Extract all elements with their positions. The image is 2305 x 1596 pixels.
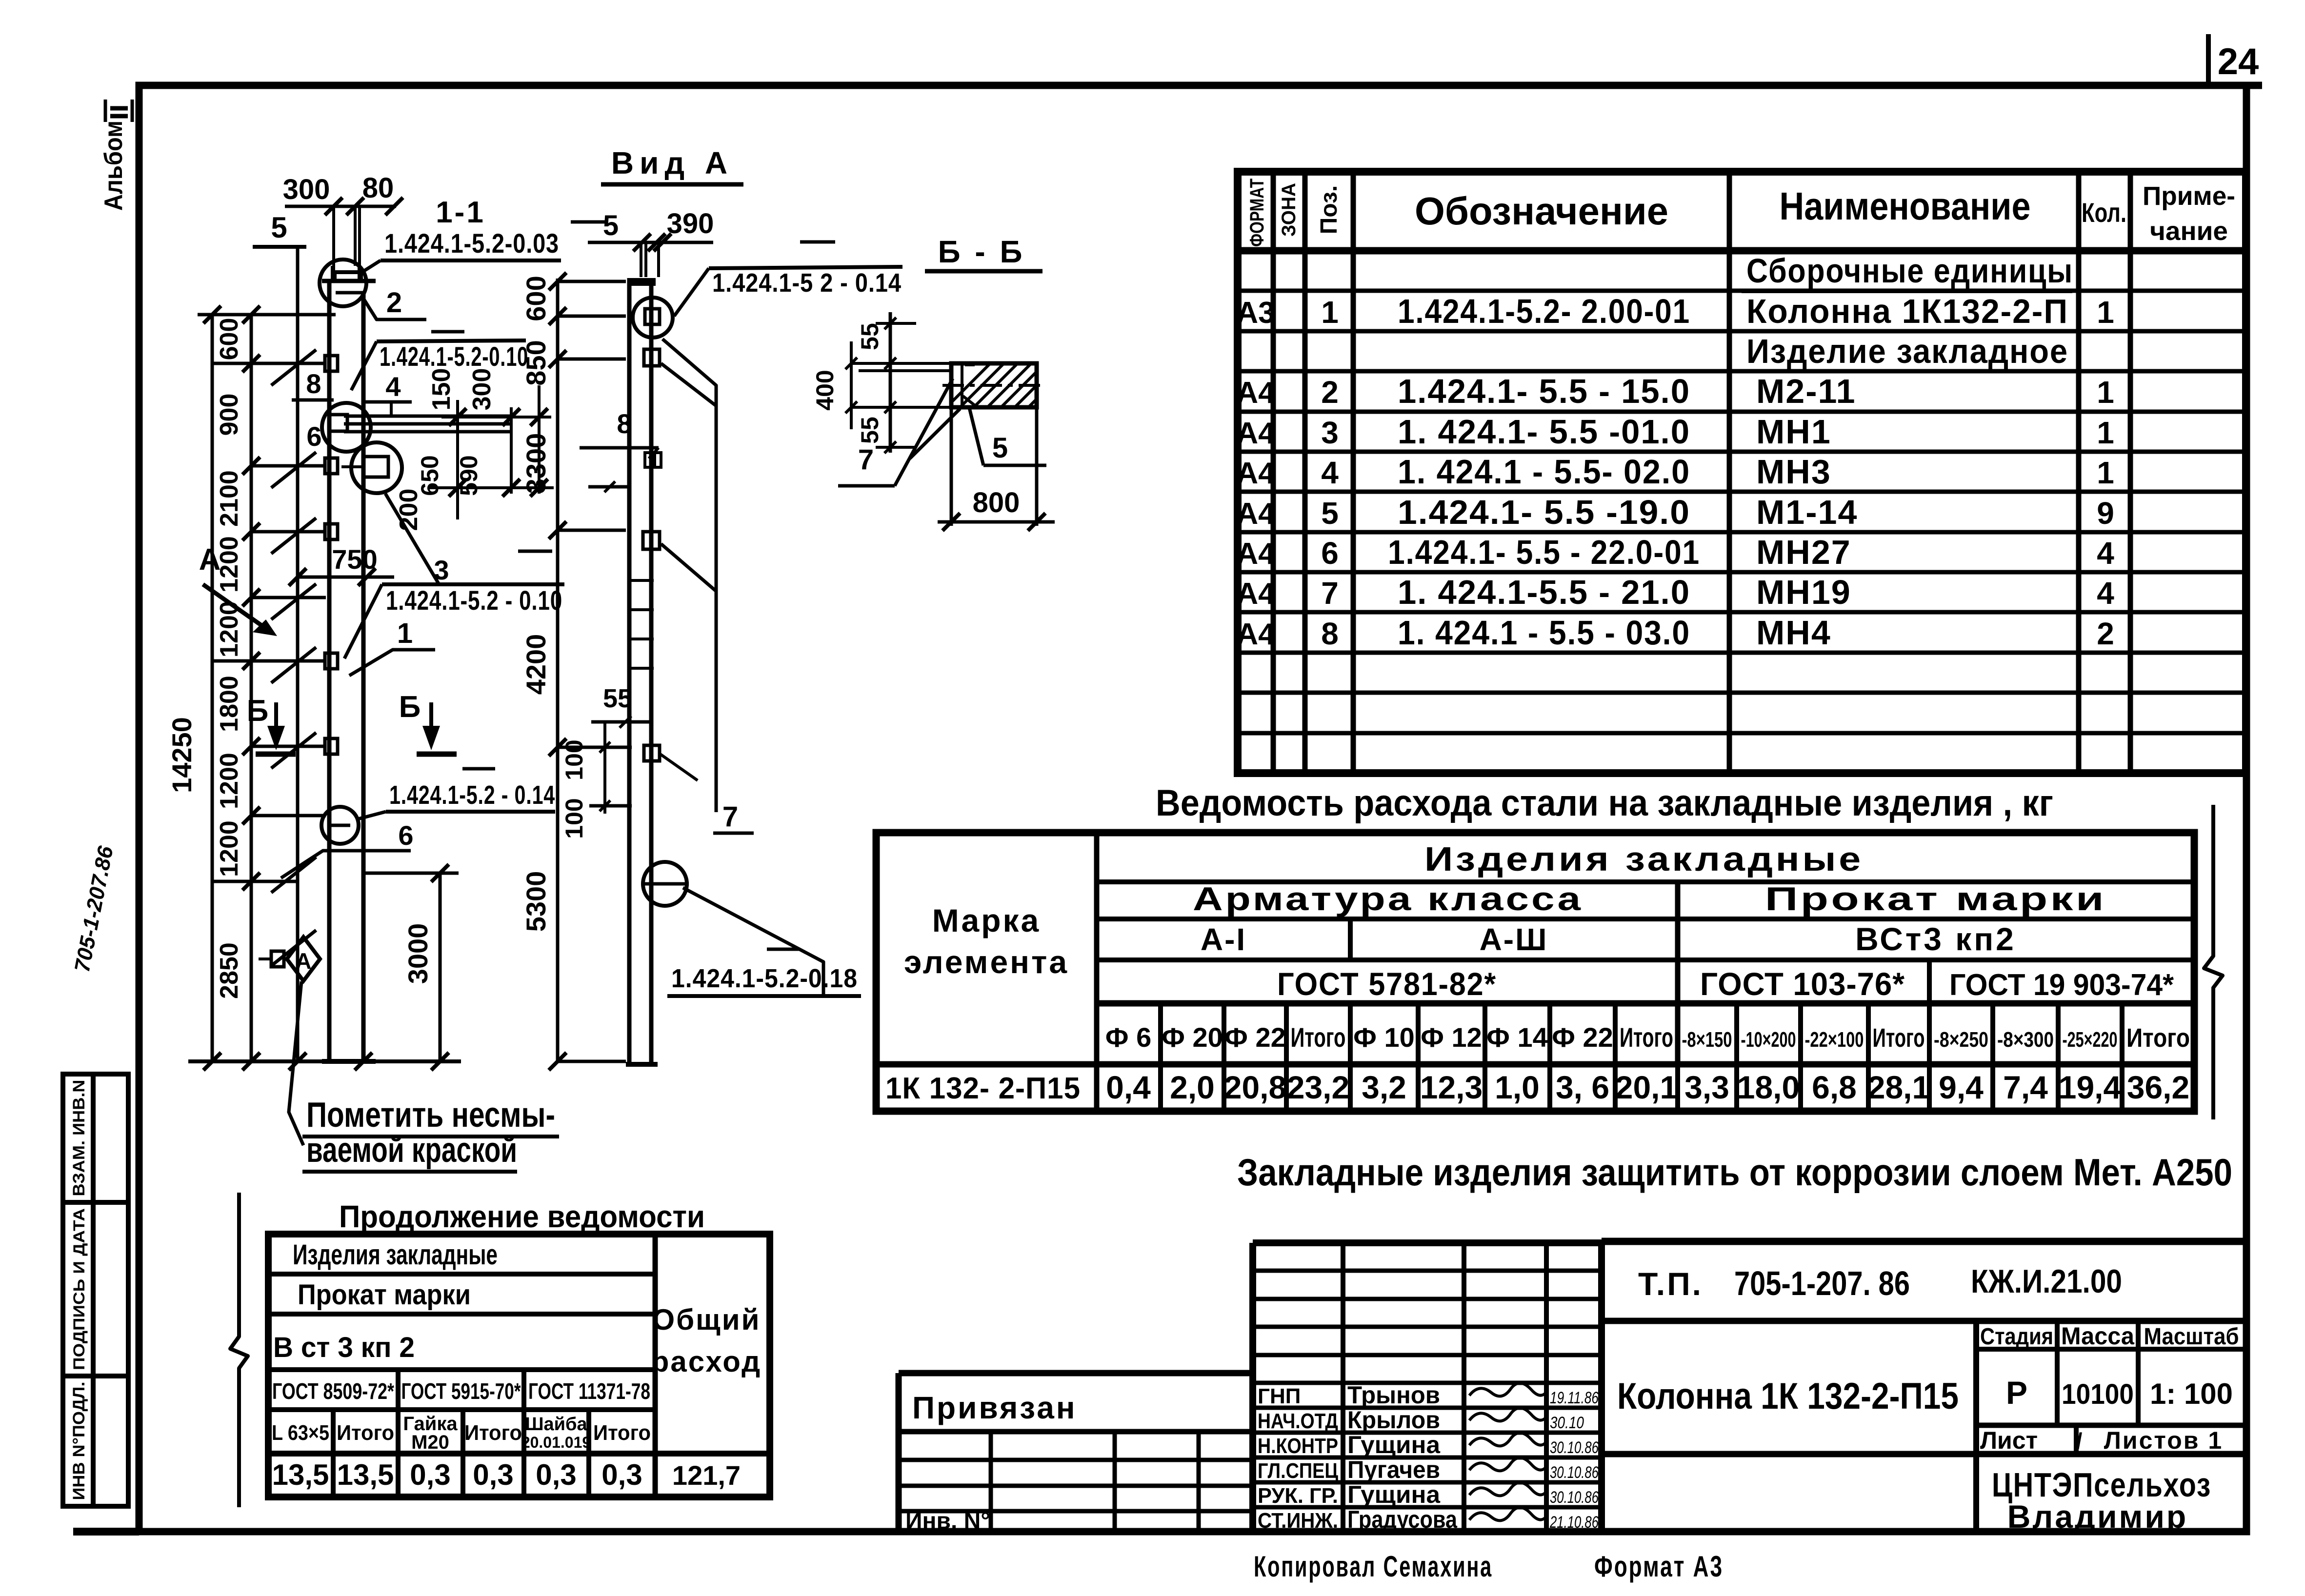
svg-text:Гущина: Гущина [1347,1431,1441,1458]
svg-text:Привязан: Привязан [912,1390,1077,1425]
svg-text:Пугачев: Пугачев [1347,1456,1440,1483]
svg-text:Изделия закладные: Изделия закладные [1424,840,1864,878]
svg-text:Ф 14: Ф 14 [1486,1022,1548,1053]
svg-text:Б: Б [247,694,269,728]
svg-text:4: 4 [2097,536,2114,571]
svg-text:19,4: 19,4 [2059,1069,2122,1105]
svg-text:А4: А4 [1236,417,1275,450]
svg-text:6: 6 [398,820,413,851]
svg-text:30.10.86: 30.10.86 [1550,1488,1599,1507]
svg-text:28,1: 28,1 [1867,1069,1930,1105]
svg-text:Ф 22: Ф 22 [1224,1022,1286,1053]
svg-text:1.424.1- 5.5 - 22.0-01: 1.424.1- 5.5 - 22.0-01 [1388,533,1700,571]
svg-text:400: 400 [811,370,839,410]
svg-text:Ф 20: Ф 20 [1162,1022,1223,1053]
svg-text:А3: А3 [1236,296,1275,330]
svg-text:МН19: МН19 [1756,573,1851,611]
svg-text:М1-14: М1-14 [1756,493,1858,531]
svg-text:Стадия: Стадия [1980,1324,2053,1350]
svg-text:Вид А: Вид А [611,145,733,180]
svg-text:6,8: 6,8 [1812,1069,1857,1105]
svg-text:24: 24 [2218,41,2259,82]
svg-text:23,2: 23,2 [1287,1069,1349,1105]
svg-text:1,0: 1,0 [1495,1069,1540,1105]
svg-text:390: 390 [667,208,714,239]
svg-text:9: 9 [2097,496,2114,531]
svg-text:8: 8 [1321,616,1339,651]
svg-text:А4: А4 [1236,497,1275,531]
svg-text:ГОСТ 103-76*: ГОСТ 103-76* [1700,966,1905,1002]
svg-text:ГОСТ 11371-78: ГОСТ 11371-78 [528,1378,650,1404]
svg-text:2: 2 [386,287,402,319]
svg-text:Итого: Итого [464,1421,522,1445]
svg-text:элемента: элемента [904,944,1069,980]
svg-text:1. 424.1- 5.5 -01.0: 1. 424.1- 5.5 -01.0 [1398,413,1690,451]
svg-text:Лист: Лист [1980,1427,2038,1454]
svg-text:Приме-: Приме- [2143,181,2235,211]
svg-text:20,8: 20,8 [1224,1069,1286,1105]
svg-text:2850: 2850 [215,942,243,999]
svg-text:55: 55 [603,684,632,713]
svg-text:1.424.1-5.2-0.18: 1.424.1-5.2-0.18 [671,964,858,993]
svg-text:80: 80 [362,172,394,204]
svg-text:-22×100: -22×100 [1805,1028,1864,1052]
svg-text:121,7: 121,7 [672,1460,741,1491]
svg-text:4: 4 [385,371,401,402]
svg-text:7: 7 [858,444,874,476]
svg-text:4: 4 [1321,455,1339,490]
svg-text:2100: 2100 [215,470,243,527]
svg-text:Н.КОНТР: Н.КОНТР [1258,1434,1338,1458]
svg-text:Пометить несмы-: Пометить несмы- [306,1096,555,1135]
svg-text:ПОДПИСЬ И ДАТА: ПОДПИСЬ И ДАТА [70,1208,88,1370]
svg-text:Гущина: Гущина [1347,1481,1441,1508]
svg-text:Владимир: Владимир [2007,1498,2188,1535]
svg-text:3, 6: 3, 6 [1556,1069,1609,1105]
svg-text:55: 55 [856,323,883,350]
svg-text:L 63×5: L 63×5 [272,1421,329,1445]
svg-text:750: 750 [332,544,377,575]
svg-text:0,4: 0,4 [1106,1069,1151,1105]
svg-text:800: 800 [973,487,1020,519]
svg-text:2: 2 [1321,375,1339,410]
svg-text:Итого: Итого [1620,1022,1673,1053]
svg-text:3: 3 [1321,415,1339,450]
svg-text:8: 8 [306,368,321,399]
svg-text:30.10: 30.10 [1550,1414,1584,1432]
svg-text:705-1-207. 86: 705-1-207. 86 [1734,1264,1910,1302]
svg-text:1: 1 [397,618,413,649]
svg-text:Ф 12: Ф 12 [1421,1022,1482,1053]
svg-text:0,3: 0,3 [601,1458,642,1491]
svg-text:7: 7 [1321,576,1339,611]
svg-text:6: 6 [306,421,321,452]
svg-text:300: 300 [283,174,330,205]
svg-text:Изделия закладные: Изделия закладные [293,1239,498,1271]
svg-text:А: А [199,543,221,577]
svg-text:Листов 1: Листов 1 [2104,1427,2223,1454]
svg-text:Кол.: Кол. [2082,197,2126,228]
svg-text:-8×250: -8×250 [1934,1028,1988,1052]
svg-text:Масштаб: Масштаб [2144,1324,2239,1350]
svg-text:ЗОНА: ЗОНА [1278,183,1300,237]
svg-text:А4: А4 [1236,537,1275,571]
svg-text:А4: А4 [1236,618,1275,651]
svg-text:Поз.: Поз. [1316,185,1342,234]
svg-text:1.424.1-5.2-0.03: 1.424.1-5.2-0.03 [384,228,559,259]
svg-text:18,0: 18,0 [1737,1069,1800,1105]
svg-text:1: 100: 1: 100 [2150,1377,2233,1410]
svg-text:А4: А4 [1236,376,1275,410]
svg-text:0,3: 0,3 [410,1458,450,1491]
svg-text:СТ.ИНЖ.: СТ.ИНЖ. [1258,1509,1338,1533]
svg-text:КЖ.И.21.00: КЖ.И.21.00 [1971,1263,2122,1300]
svg-text:1.424.1-5.2-0.10: 1.424.1-5.2-0.10 [380,341,528,372]
svg-text:Градусова: Градусова [1347,1506,1458,1533]
svg-text:30.10.86: 30.10.86 [1550,1438,1599,1457]
svg-text:Трынов: Трынов [1347,1381,1440,1409]
svg-text:0,3: 0,3 [473,1458,513,1491]
svg-text:ГНП: ГНП [1258,1384,1301,1408]
svg-text:5300: 5300 [521,871,551,932]
svg-text:ФОРМАТ: ФОРМАТ [1246,179,1268,247]
svg-text:Итого: Итого [1291,1022,1346,1053]
svg-text:3,3: 3,3 [1684,1069,1729,1105]
svg-text:1800: 1800 [215,676,243,732]
svg-text:А4: А4 [1236,577,1275,611]
svg-text:850: 850 [521,340,551,385]
svg-text:20,1: 20,1 [1615,1069,1678,1105]
svg-text:1200: 1200 [215,753,243,809]
svg-text:10100: 10100 [2062,1378,2134,1410]
svg-text:Б - Б: Б - Б [938,234,1025,269]
svg-text:Б: Б [399,690,421,724]
svg-text:7: 7 [722,801,738,833]
svg-text:1К 132- 2-П15: 1К 132- 2-П15 [885,1072,1081,1105]
svg-text:Ф 6: Ф 6 [1105,1022,1152,1053]
svg-text:Формат А3: Формат А3 [1594,1550,1724,1583]
svg-text:ГЛ.СПЕЦ: ГЛ.СПЕЦ [1258,1459,1338,1483]
svg-text:9,4: 9,4 [1939,1069,1984,1105]
svg-text:ГОСТ 5915-70*: ГОСТ 5915-70* [401,1378,521,1404]
svg-text:А-Ш: А-Ш [1480,922,1548,957]
svg-text:-10×200: -10×200 [1741,1028,1796,1052]
svg-text:1. 424.1 - 5.5 - 03.0: 1. 424.1 - 5.5 - 03.0 [1398,614,1690,652]
svg-text:1.424.1-5.2- 2.00-01: 1.424.1-5.2- 2.00-01 [1398,292,1690,330]
svg-text:ГОСТ 19 903-74*: ГОСТ 19 903-74* [1949,968,2174,1002]
svg-text:Обозначение: Обозначение [1415,189,1668,233]
svg-text:300: 300 [468,368,496,411]
svg-text:1. 424.1 - 5.5- 02.0: 1. 424.1 - 5.5- 02.0 [1398,453,1690,491]
svg-text:6: 6 [1321,536,1339,571]
svg-text:36,2: 36,2 [2127,1069,2189,1105]
svg-text:1: 1 [1321,295,1339,330]
svg-text:150: 150 [427,368,456,411]
svg-text:Альбом: Альбом [100,120,128,211]
svg-text:4: 4 [2097,576,2114,611]
svg-text:4200: 4200 [521,634,551,695]
svg-text:расход: расход [651,1345,762,1378]
svg-text:А: А [295,948,311,974]
svg-text:Итого: Итого [1873,1023,1925,1053]
svg-text:2: 2 [2097,616,2114,651]
svg-text:1: 1 [2097,375,2114,410]
svg-text:1200: 1200 [215,820,243,877]
svg-text:600: 600 [521,276,551,321]
svg-text:20.01.019: 20.01.019 [521,1434,591,1451]
svg-text:Арматура класса: Арматура класса [1193,880,1583,918]
svg-text:100: 100 [561,798,588,838]
svg-text:ВСт3 кп2: ВСт3 кп2 [1855,921,2016,957]
svg-text:Инв. N°: Инв. N° [905,1508,990,1534]
svg-text:ГОСТ 8509-72*: ГОСТ 8509-72* [272,1378,394,1404]
svg-text:Колонна 1К132-2-П: Колонна 1К132-2-П [1746,292,2068,330]
svg-text:2,0: 2,0 [1170,1069,1215,1105]
svg-text:21.10.86: 21.10.86 [1549,1513,1599,1532]
svg-text:Шайба: Шайба [525,1414,587,1435]
svg-text:8: 8 [617,408,632,439]
svg-text:ИНВ N°ПОДЛ.: ИНВ N°ПОДЛ. [70,1382,88,1500]
svg-text:590: 590 [455,455,482,496]
svg-text:ваемой краской: ваемой краской [306,1131,517,1170]
svg-text:ГОСТ 5781-82*: ГОСТ 5781-82* [1277,966,1497,1002]
svg-text:МН4: МН4 [1756,614,1831,652]
svg-text:5: 5 [603,210,619,241]
svg-text:МН27: МН27 [1756,533,1851,571]
svg-text:0,3: 0,3 [536,1458,576,1491]
svg-text:12,3: 12,3 [1420,1069,1483,1105]
svg-text:ВЗАМ. ИНВ.N: ВЗАМ. ИНВ.N [70,1080,88,1197]
svg-text:Общий: Общий [652,1303,761,1336]
svg-text:5: 5 [271,211,287,244]
svg-text:55: 55 [856,417,883,444]
svg-text:900: 900 [215,394,243,436]
svg-text:Ф 10: Ф 10 [1353,1022,1415,1053]
svg-text:Копировал Семахина: Копировал Семахина [1254,1550,1493,1583]
svg-text:19.11.86: 19.11.86 [1550,1389,1599,1407]
svg-text:14250: 14250 [166,717,197,793]
svg-text:Колонна 1К 132-2-П15: Колонна 1К 132-2-П15 [1617,1376,1959,1417]
svg-text:1-1: 1-1 [436,196,485,229]
svg-text:Итого: Итого [337,1421,394,1445]
svg-text:13,5: 13,5 [272,1458,329,1491]
svg-text:Изделие закладное: Изделие закладное [1746,332,2068,370]
svg-text:1: 1 [2097,295,2114,330]
svg-text:А4: А4 [1236,457,1275,490]
svg-text:Прокат марки: Прокат марки [1765,880,2106,918]
svg-text:/: / [2076,1428,2083,1454]
svg-text:Ф 22: Ф 22 [1552,1022,1613,1053]
svg-text:Крылов: Крылов [1347,1406,1440,1434]
svg-text:Р: Р [2006,1375,2027,1411]
svg-text:Прокат марки: Прокат марки [298,1279,471,1311]
svg-text:-25×220: -25×220 [2063,1028,2118,1052]
svg-text:Наименование: Наименование [1780,184,2031,228]
svg-text:М2-11: М2-11 [1756,372,1856,410]
svg-text:30.10.86: 30.10.86 [1550,1463,1599,1482]
svg-text:1: 1 [2097,415,2114,450]
svg-text:3300: 3300 [521,433,551,494]
svg-text:1.424.1- 5.5 -19.0: 1.424.1- 5.5 -19.0 [1398,493,1690,531]
svg-text:МН3: МН3 [1756,453,1831,491]
svg-text:Закладные изделия защитить: Закладные изделия защитить от коррозии с… [1237,1151,2232,1194]
svg-text:В ст 3 кп 2: В ст 3 кп 2 [273,1332,415,1363]
svg-text:М20: М20 [411,1432,449,1453]
svg-text:А-I: А-I [1201,922,1246,957]
svg-text:Ведомость расхода стали на з: Ведомость расхода стали на закладные изд… [1156,782,2053,824]
svg-text:13,5: 13,5 [337,1458,394,1491]
svg-text:Т.П.: Т.П. [1638,1266,1703,1302]
svg-text:РУК. ГР.: РУК. ГР. [1258,1484,1338,1508]
svg-text:5: 5 [992,432,1008,464]
svg-text:1. 424.1-5.5 - 21.0: 1. 424.1-5.5 - 21.0 [1398,573,1690,611]
svg-text:600: 600 [215,318,243,360]
svg-text:3,2: 3,2 [1362,1069,1406,1105]
svg-text:чание: чание [2150,217,2228,246]
svg-text:-8×300: -8×300 [1997,1028,2054,1052]
svg-text:1: 1 [2097,455,2114,490]
svg-text:705-1-207.86: 705-1-207.86 [70,844,118,974]
svg-text:Продолжение ведомости: Продолжение ведомости [339,1199,705,1234]
svg-text:Итого: Итого [593,1421,651,1445]
svg-text:3000: 3000 [402,923,433,984]
svg-text:100: 100 [561,739,588,780]
svg-text:5: 5 [1321,496,1339,531]
svg-text:МН1: МН1 [1756,413,1831,451]
svg-text:Сборочные единицы: Сборочные единицы [1746,252,2073,290]
svg-text:1.424.1- 5.5 - 15.0: 1.424.1- 5.5 - 15.0 [1398,372,1690,410]
svg-text:-8×150: -8×150 [1682,1028,1732,1052]
svg-text:Итого: Итого [2126,1023,2190,1053]
svg-text:Марка: Марка [932,902,1041,938]
svg-text:200: 200 [395,489,423,531]
svg-text:Масса: Масса [2061,1322,2135,1350]
svg-text:1.424.1-5 2 - 0.14: 1.424.1-5 2 - 0.14 [712,268,902,298]
svg-text:1.424.1-5.2 - 0.14: 1.424.1-5.2 - 0.14 [389,780,555,810]
svg-text:7,4: 7,4 [2003,1069,2048,1105]
svg-text:1.424.1-5.2 - 0.10: 1.424.1-5.2 - 0.10 [386,585,562,616]
svg-text:НАЧ.ОТД: НАЧ.ОТД [1258,1409,1338,1433]
